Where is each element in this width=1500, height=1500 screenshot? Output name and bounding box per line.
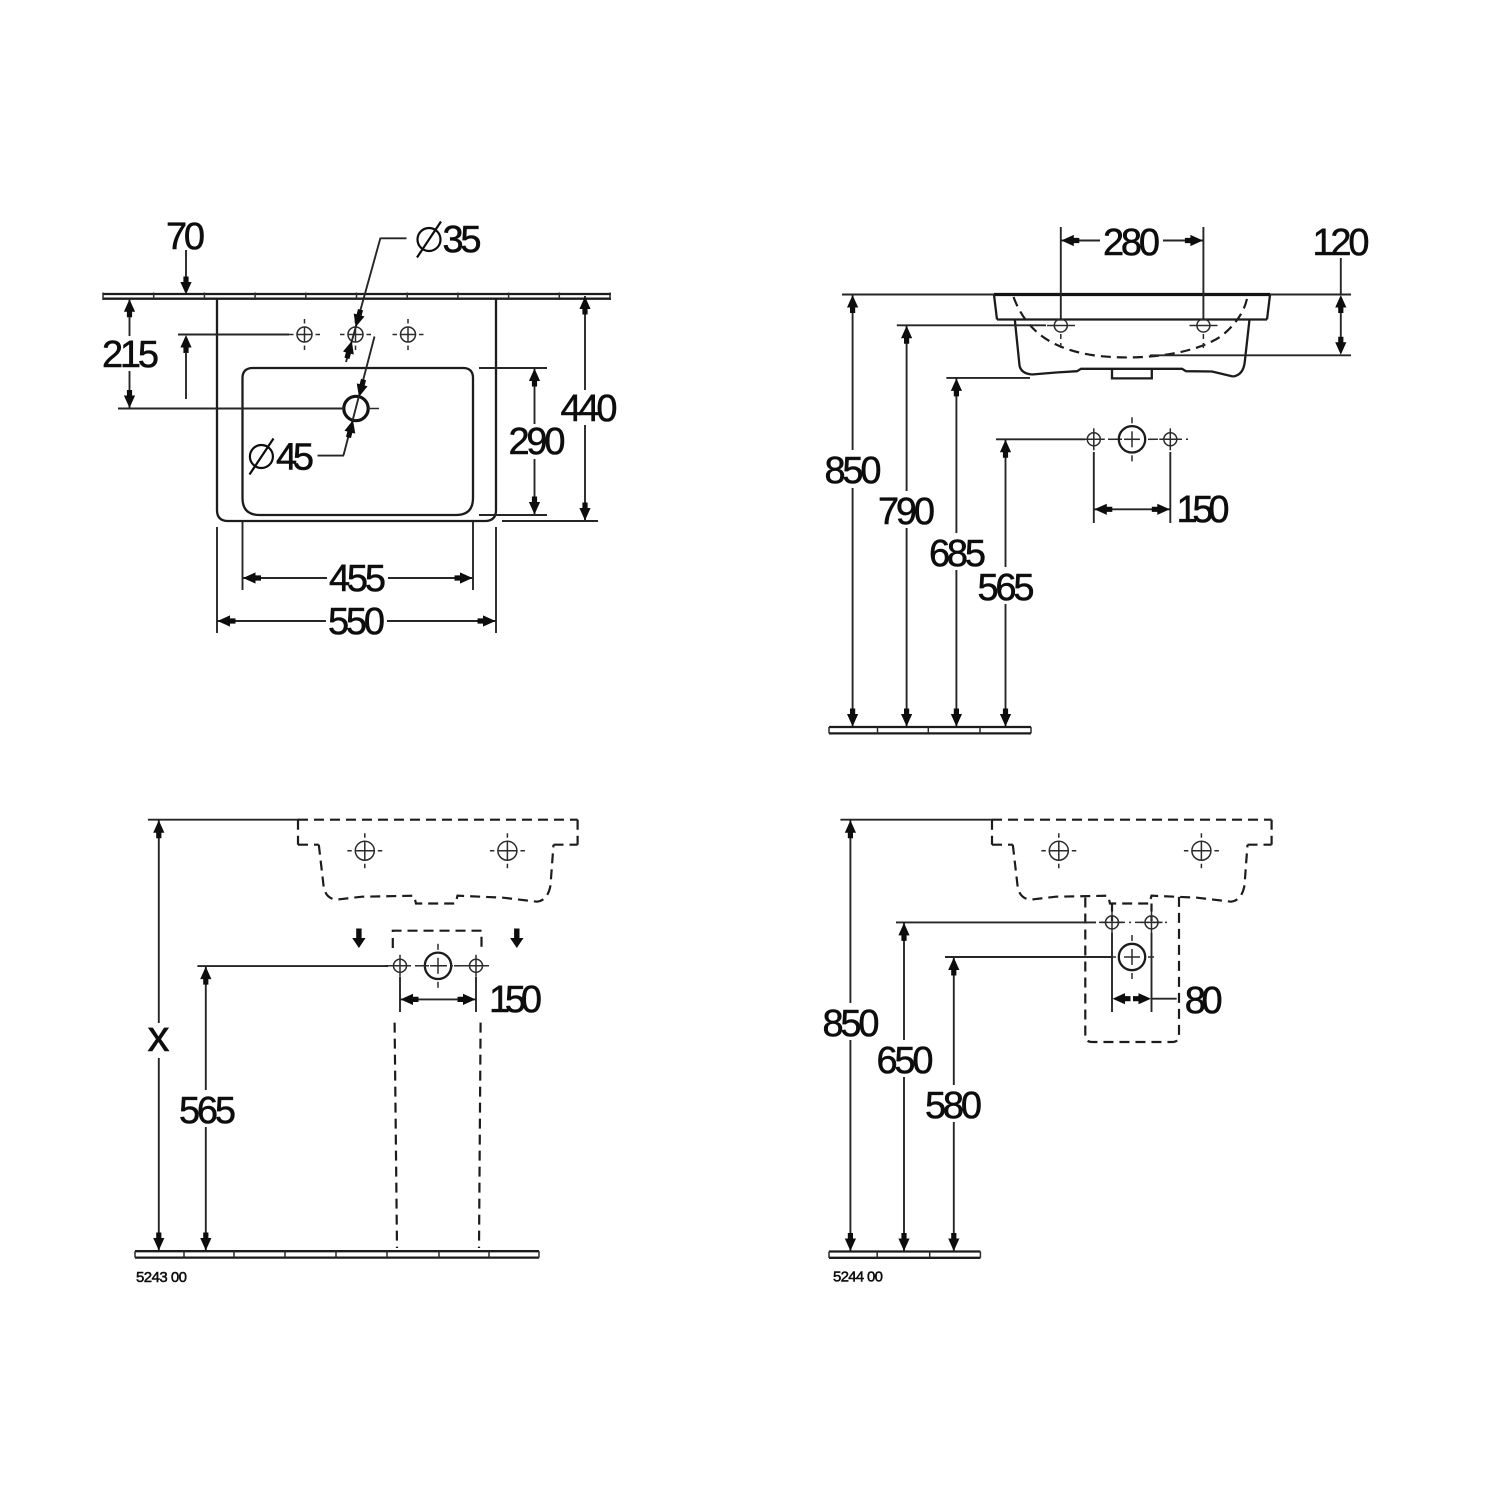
- overflow hole right: [1190, 319, 1218, 352]
- svg-text:565: 565: [978, 567, 1035, 609]
- dim 850: [825, 295, 882, 728]
- svg-text:650: 650: [877, 1040, 934, 1082]
- extension 565: [996, 438, 1085, 440]
- dashed basin outline: [992, 820, 1272, 904]
- dim 650: [877, 922, 934, 1251]
- dim 280: [1061, 222, 1204, 319]
- basin interior dashed: [1014, 297, 1248, 357]
- svg-text:580: 580: [925, 1085, 982, 1127]
- dim 120: [1150, 222, 1370, 355]
- drain hole: [344, 396, 379, 420]
- fixing hole right: [1141, 911, 1163, 933]
- dim 550: [217, 527, 496, 643]
- floor line: [135, 1251, 539, 1257]
- holes centerline: [1099, 921, 1168, 923]
- tap hole right: [1184, 833, 1219, 868]
- label dia35 leader: [342, 238, 407, 362]
- overflow hole left: [1047, 319, 1075, 352]
- dim 850: [823, 820, 880, 1252]
- wall line with tile ticks: [103, 293, 611, 301]
- extension 580: [945, 956, 1113, 958]
- fixing hole left: [1101, 911, 1123, 933]
- svg-text:70: 70: [166, 216, 205, 258]
- svg-text:790: 790: [878, 491, 935, 533]
- tap hole right: [490, 833, 525, 868]
- dim x: [148, 820, 170, 1251]
- extension 790: [897, 324, 1046, 326]
- drain circle: [416, 944, 460, 988]
- dim 70: [166, 216, 205, 399]
- dim 440: [502, 296, 618, 521]
- dim 215: [102, 299, 159, 409]
- tap hole left: [347, 833, 382, 868]
- svg-text:45: 45: [276, 437, 314, 479]
- extension 565: [197, 965, 388, 967]
- svg-text:280: 280: [1103, 222, 1160, 264]
- basin inner bowl: [243, 368, 474, 515]
- basin rim: [994, 295, 1270, 320]
- svg-text:850: 850: [825, 450, 882, 492]
- extension 650: [896, 921, 1096, 923]
- basin outer outline: [217, 299, 496, 521]
- top reference line: [840, 819, 992, 821]
- svg-text:35: 35: [443, 219, 482, 261]
- tap hole left: [289, 319, 320, 350]
- svg-text:150: 150: [489, 979, 542, 1021]
- svg-text:440: 440: [561, 388, 618, 430]
- dim 580: [925, 957, 982, 1252]
- mounting plate dashed: [393, 931, 482, 948]
- down arrow right: [510, 929, 523, 949]
- svg-text:120: 120: [1313, 222, 1370, 264]
- basin body: [1015, 320, 1250, 379]
- dashed basin outline: [298, 820, 578, 904]
- floor line: [829, 727, 1031, 733]
- fixing hole left: [389, 955, 411, 977]
- pedestal dashed: [395, 1023, 481, 1248]
- svg-text:150: 150: [1177, 489, 1230, 531]
- top reference line: [842, 294, 1351, 296]
- label dia45: [250, 437, 315, 479]
- svg-text:5244 00: 5244 00: [833, 1269, 883, 1286]
- extension 685: [946, 377, 1030, 379]
- semi-pedestal dashed: [1085, 897, 1179, 1043]
- floor line: [829, 1252, 980, 1258]
- svg-text:565: 565: [179, 1090, 236, 1132]
- svg-text:850: 850: [823, 1003, 880, 1045]
- svg-text:5243 00: 5243 00: [136, 1269, 187, 1286]
- dim 565: [179, 966, 236, 1251]
- tap hole left: [1041, 833, 1076, 868]
- label dia35: [417, 219, 482, 261]
- fixing hole left: [1083, 428, 1105, 450]
- fixing hole right: [1159, 428, 1181, 450]
- down arrow left: [352, 929, 365, 949]
- dim 150: [400, 977, 542, 1021]
- mounting holes centerline: [1078, 438, 1188, 440]
- svg-text:x: x: [148, 1012, 170, 1061]
- drain circle: [1110, 935, 1154, 979]
- svg-text:455: 455: [329, 558, 386, 600]
- drain circle: [1110, 417, 1154, 461]
- dim 685: [929, 378, 986, 727]
- svg-text:80: 80: [1185, 980, 1223, 1022]
- dim 80: [1112, 933, 1223, 1022]
- top reference line: [148, 819, 299, 821]
- dim 790: [878, 325, 935, 727]
- svg-text:215: 215: [102, 334, 159, 376]
- dim 565: [978, 439, 1035, 727]
- svg-text:550: 550: [328, 601, 385, 643]
- dim 455: [243, 521, 474, 600]
- label dia45 leader: [318, 337, 375, 456]
- dim 150: [1094, 452, 1230, 531]
- holes centerline: [385, 965, 492, 967]
- dim 290: [479, 368, 566, 515]
- extension line drain: [118, 408, 344, 410]
- tap hole right: [393, 319, 424, 350]
- tap hole centre: [340, 319, 371, 350]
- extension line tap holes: [178, 334, 289, 336]
- svg-text:290: 290: [509, 421, 566, 463]
- fixing hole right: [465, 955, 487, 977]
